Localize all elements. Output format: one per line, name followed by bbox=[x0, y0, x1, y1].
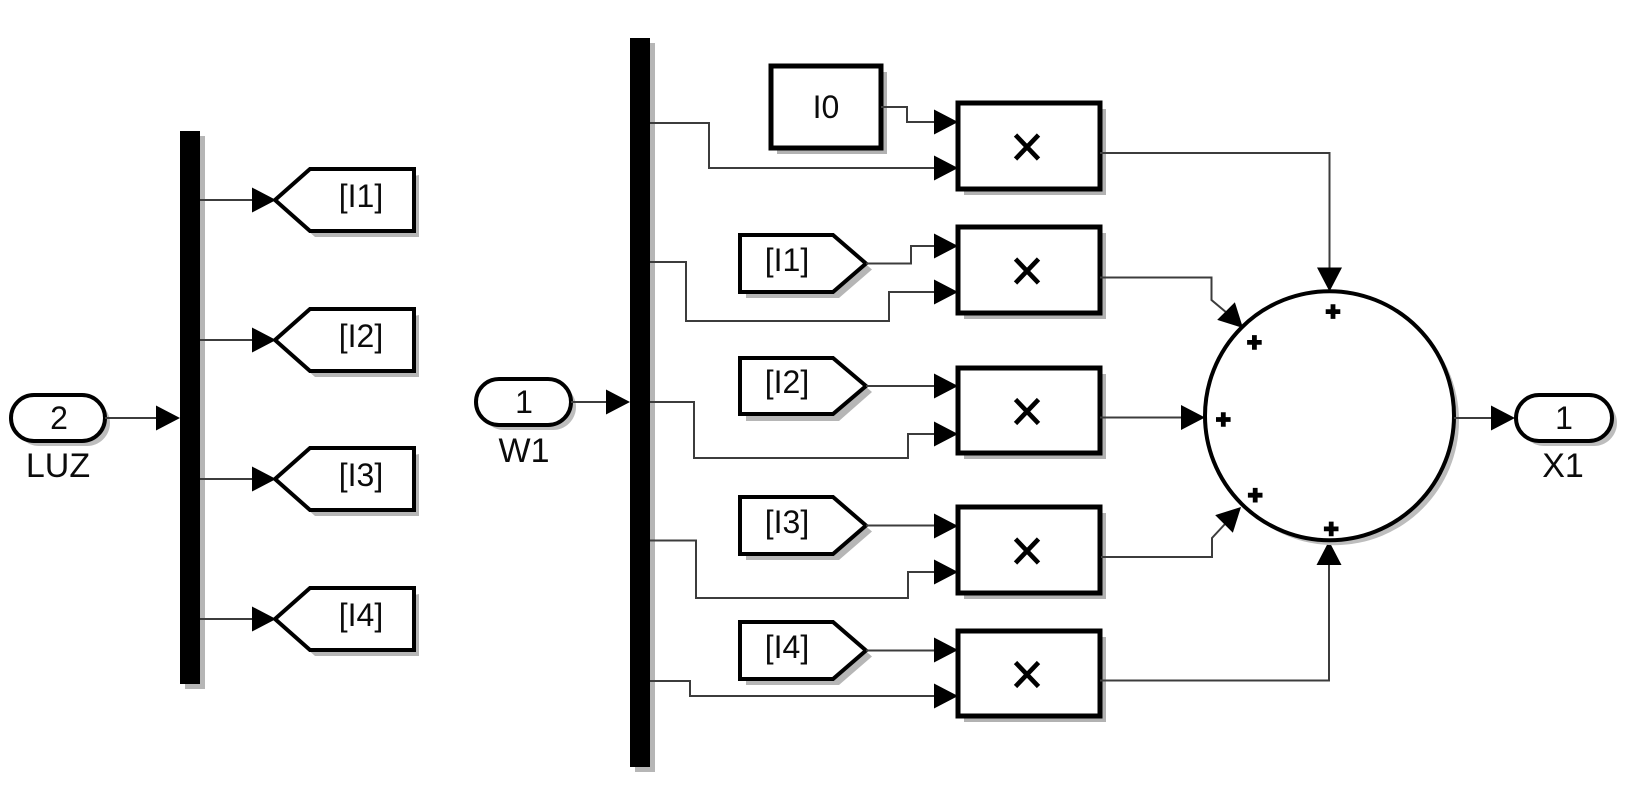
wire from I1 to product P2 input1 bbox=[866, 234, 958, 264]
svg-text:X1: X1 bbox=[1542, 447, 1584, 485]
wire from I4 to product P5 input1 bbox=[866, 638, 958, 663]
from [I2] bbox=[740, 358, 872, 421]
svg-text:1: 1 bbox=[1555, 400, 1573, 436]
svg-text:[I4]: [I4] bbox=[765, 629, 809, 665]
wire demux2 to product P2 input2 bbox=[650, 262, 958, 321]
wire product P2 to sum upper-left bbox=[1100, 278, 1252, 337]
wire demux1 to goto I2 bbox=[200, 328, 276, 353]
svg-text:I0: I0 bbox=[813, 89, 840, 125]
constant I0 bbox=[771, 66, 887, 154]
wire product P1 to sum top bbox=[1100, 153, 1342, 292]
product P3 bbox=[958, 368, 1106, 459]
svg-text:[I1]: [I1] bbox=[765, 242, 809, 278]
wire product P5 to sum bottom bbox=[1100, 541, 1342, 681]
svg-text:1: 1 bbox=[515, 384, 533, 420]
wire LUZ to demux1 bbox=[105, 406, 180, 431]
goto [I4] bbox=[275, 588, 419, 656]
wire demux1 to goto I1 bbox=[200, 188, 276, 213]
svg-text:[I2]: [I2] bbox=[339, 318, 383, 354]
demux D1 bbox=[180, 131, 205, 689]
wire W1 to demux2 bbox=[571, 390, 630, 415]
from [I1] bbox=[740, 235, 872, 298]
product P1 bbox=[958, 103, 1106, 195]
svg-text:LUZ: LUZ bbox=[26, 447, 90, 485]
product P2 bbox=[958, 227, 1106, 319]
demux D2 bbox=[630, 38, 655, 772]
svg-text:[I3]: [I3] bbox=[765, 504, 809, 540]
wire product P3 to sum left bbox=[1100, 405, 1205, 430]
wire demux2 to product P3 input2 bbox=[650, 402, 958, 458]
wire sum to outport X1 bbox=[1454, 406, 1515, 431]
wire demux1 to goto I4 bbox=[200, 607, 276, 632]
svg-text:[I2]: [I2] bbox=[765, 364, 809, 400]
wire demux1 to goto I3 bbox=[200, 467, 276, 492]
wire demux2 to product P1 input2 bbox=[650, 123, 958, 181]
svg-text:[I1]: [I1] bbox=[339, 178, 383, 214]
wire I0 to product P1 input1 bbox=[881, 107, 958, 135]
svg-text:[I4]: [I4] bbox=[339, 597, 383, 633]
svg-text:[I3]: [I3] bbox=[339, 457, 383, 493]
inport 2 LUZ bbox=[11, 395, 110, 485]
goto [I3] bbox=[275, 448, 419, 516]
sum S1 bbox=[1205, 291, 1459, 545]
svg-text:W1: W1 bbox=[499, 432, 550, 470]
goto [I2] bbox=[275, 309, 419, 377]
wire product P4 to sum lower-left bbox=[1101, 498, 1250, 557]
outport 1 X1 bbox=[1516, 395, 1617, 485]
goto [I1] bbox=[275, 169, 419, 237]
inport 1 W1 bbox=[476, 379, 576, 470]
product P4 bbox=[958, 507, 1106, 599]
wire from I3 to product P4 input1 bbox=[866, 514, 958, 539]
svg-text:2: 2 bbox=[50, 400, 68, 436]
wire from I2 to product P3 input1 bbox=[866, 374, 958, 399]
product P5 bbox=[958, 631, 1106, 722]
wire demux2 to product P4 input2 bbox=[650, 541, 958, 599]
from [I3] bbox=[740, 497, 872, 560]
from [I4] bbox=[740, 622, 872, 685]
wire demux2 to product P5 input2 bbox=[650, 681, 958, 709]
